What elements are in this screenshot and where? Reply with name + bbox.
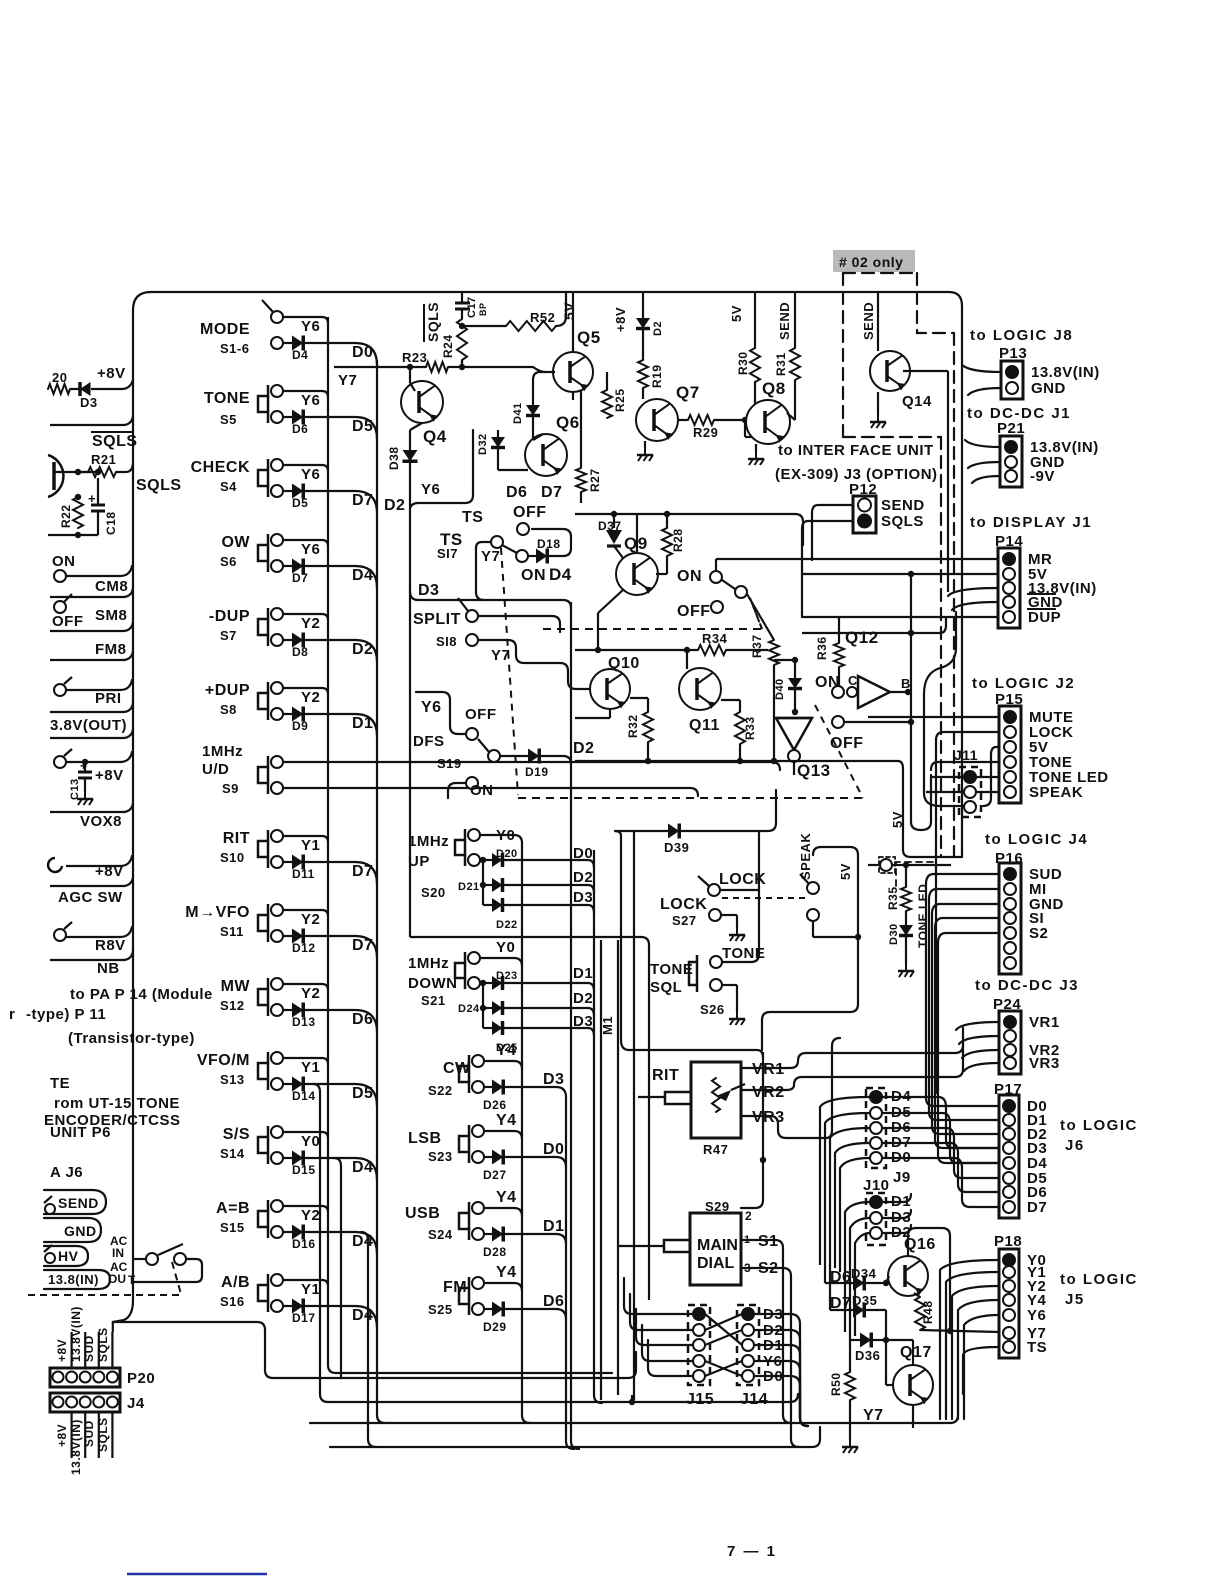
svg-text:R30: R30 (736, 351, 750, 375)
svg-text:20: 20 (52, 370, 67, 385)
svg-text:SUD: SUD (82, 1420, 96, 1447)
svg-text:to LOGIC J2: to LOGIC J2 (972, 675, 1075, 692)
svg-text:LSB: LSB (408, 1130, 442, 1147)
svg-text:+DUP: +DUP (205, 682, 250, 699)
svg-text:1MHz: 1MHz (202, 743, 243, 760)
svg-text:C13: C13 (69, 778, 81, 800)
svg-text:rom UT-15 TONE: rom UT-15 TONE (54, 1095, 180, 1112)
svg-text:J15: J15 (686, 1391, 714, 1408)
svg-text:Y6: Y6 (421, 699, 442, 716)
svg-text:S19: S19 (437, 756, 462, 771)
svg-text:SEND: SEND (777, 302, 792, 340)
svg-text:Y6: Y6 (421, 481, 440, 498)
svg-text:NB: NB (97, 960, 120, 977)
svg-text:Y4: Y4 (496, 1112, 517, 1129)
svg-text:D4: D4 (352, 1233, 373, 1250)
svg-text:AGC SW: AGC SW (58, 889, 123, 906)
svg-text:R25: R25 (613, 388, 627, 412)
svg-text:+8V: +8V (97, 365, 126, 382)
svg-text:Y4: Y4 (496, 1042, 517, 1059)
svg-text:OU: OU (108, 1272, 126, 1286)
svg-text:D6: D6 (292, 422, 308, 436)
svg-text:CHECK: CHECK (191, 459, 250, 476)
svg-text:TS: TS (462, 509, 483, 526)
svg-text:BP: BP (478, 302, 488, 316)
svg-text:C17: C17 (466, 296, 478, 318)
svg-text:D40: D40 (774, 678, 786, 700)
svg-text:R47: R47 (703, 1142, 728, 1157)
svg-text:VOX8: VOX8 (80, 813, 122, 830)
svg-text:13.8V(IN): 13.8V(IN) (69, 1419, 83, 1475)
svg-text:D5: D5 (292, 496, 308, 510)
svg-text:VR3: VR3 (752, 1109, 785, 1126)
svg-text:R37: R37 (750, 634, 764, 658)
svg-text:S12: S12 (220, 998, 245, 1013)
svg-text:S1: S1 (758, 1233, 779, 1250)
svg-text:SEND: SEND (58, 1195, 99, 1211)
svg-text:SPLIT: SPLIT (413, 611, 461, 628)
svg-text:SQLS: SQLS (96, 1417, 110, 1452)
svg-text:S7: S7 (220, 628, 237, 643)
svg-text:VR2: VR2 (752, 1084, 785, 1101)
svg-text:R8V: R8V (95, 937, 126, 954)
svg-text:D39: D39 (664, 840, 689, 855)
svg-text:Q7: Q7 (676, 383, 700, 402)
svg-text:D15: D15 (292, 1163, 316, 1177)
svg-text:VR3: VR3 (1029, 1055, 1060, 1072)
svg-text:R31: R31 (774, 352, 788, 376)
svg-text:+: + (80, 759, 88, 773)
svg-text:to LOGIC: to LOGIC (1060, 1117, 1138, 1134)
svg-text:ON: ON (52, 553, 76, 570)
svg-text:-9V: -9V (1030, 468, 1055, 485)
svg-text:R22: R22 (59, 504, 73, 528)
svg-text:D30: D30 (888, 923, 900, 945)
svg-text:R27: R27 (588, 468, 602, 492)
svg-text:D6: D6 (543, 1293, 564, 1310)
svg-text:+8V: +8V (613, 307, 628, 332)
svg-text:+8V: +8V (55, 1339, 69, 1362)
svg-text:OFF: OFF (465, 706, 497, 723)
svg-text:Y2: Y2 (301, 689, 320, 706)
svg-text:OW: OW (221, 534, 250, 551)
svg-text:D23: D23 (496, 970, 518, 982)
svg-text:-type) P 11: -type) P 11 (26, 1006, 106, 1023)
svg-text:D4: D4 (549, 565, 572, 584)
svg-text:R32: R32 (626, 714, 640, 738)
svg-text:D16: D16 (292, 1237, 316, 1251)
svg-text:D5: D5 (352, 1085, 373, 1102)
svg-text:D2: D2 (573, 740, 594, 757)
svg-text:ON: ON (470, 782, 494, 799)
svg-text:D1: D1 (352, 715, 373, 732)
svg-text:Q11: Q11 (689, 717, 720, 734)
svg-text:Q4: Q4 (423, 427, 447, 446)
svg-text:SQLS: SQLS (881, 513, 924, 530)
svg-text:1MHz: 1MHz (408, 955, 449, 972)
svg-text:R52: R52 (530, 310, 555, 325)
svg-text:D32: D32 (477, 433, 489, 455)
svg-text:OFF: OFF (52, 613, 84, 630)
svg-text:S8: S8 (220, 702, 237, 717)
svg-text:D4: D4 (352, 567, 373, 584)
svg-text:D13: D13 (292, 1015, 316, 1029)
svg-text:D4: D4 (352, 1307, 373, 1324)
svg-text:C18: C18 (104, 511, 118, 535)
svg-text:+8V: +8V (55, 1424, 69, 1447)
svg-text:13.8V(IN): 13.8V(IN) (1031, 364, 1100, 381)
svg-text:D26: D26 (483, 1098, 507, 1112)
svg-text:D3: D3 (418, 582, 439, 599)
svg-text:PRI: PRI (95, 690, 122, 707)
svg-text:R21: R21 (91, 452, 116, 467)
svg-text:J10: J10 (863, 1177, 890, 1194)
svg-text:SEND: SEND (881, 497, 925, 514)
svg-text:TONE: TONE (650, 961, 693, 978)
svg-text:Y7: Y7 (481, 548, 500, 565)
svg-text:C: C (848, 673, 858, 688)
svg-text:D2: D2 (573, 990, 593, 1007)
svg-text:D7: D7 (541, 484, 562, 501)
svg-text:S5: S5 (220, 412, 237, 427)
svg-text:Y0: Y0 (301, 1133, 320, 1150)
svg-text:Q9: Q9 (624, 534, 648, 553)
svg-text:MODE: MODE (200, 321, 250, 338)
svg-text:D12: D12 (292, 941, 316, 955)
svg-text:to DC-DC J3: to DC-DC J3 (975, 977, 1079, 994)
svg-text:R35: R35 (886, 886, 900, 910)
svg-text:Y2: Y2 (301, 985, 320, 1002)
svg-text:SEND: SEND (861, 302, 876, 340)
svg-text:J5: J5 (1065, 1291, 1085, 1308)
svg-text:5V: 5V (729, 305, 744, 322)
svg-text:+: + (88, 491, 96, 506)
svg-text:13.8(IN): 13.8(IN) (48, 1272, 99, 1287)
svg-text:Y7: Y7 (338, 372, 357, 389)
svg-text:Q6: Q6 (556, 413, 580, 432)
svg-text:D3: D3 (543, 1071, 564, 1088)
svg-text:TONE: TONE (204, 390, 250, 407)
svg-text:M→VFO: M→VFO (185, 904, 250, 921)
svg-text:R29: R29 (693, 425, 718, 440)
svg-text:SM8: SM8 (95, 607, 127, 624)
svg-text:MW: MW (221, 978, 251, 995)
svg-text:J11: J11 (954, 747, 978, 763)
svg-text:VR1: VR1 (1029, 1014, 1060, 1031)
svg-text:r: r (9, 1006, 15, 1023)
svg-text:D6: D6 (506, 484, 527, 501)
svg-text:Y2: Y2 (301, 1207, 320, 1224)
svg-text:Q5: Q5 (577, 328, 601, 347)
svg-text:SQLS: SQLS (96, 1327, 110, 1362)
svg-text:USB: USB (405, 1205, 440, 1222)
svg-text:B: B (901, 676, 911, 691)
svg-text:RIT: RIT (652, 1067, 679, 1084)
svg-text:SPEAK: SPEAK (798, 833, 813, 880)
svg-text:to LOGIC J4: to LOGIC J4 (985, 831, 1088, 848)
svg-text:GND: GND (64, 1223, 97, 1239)
svg-text:A=B: A=B (216, 1200, 250, 1217)
svg-text:DIAL: DIAL (697, 1255, 735, 1272)
svg-text:D3: D3 (573, 889, 593, 906)
svg-text:D6: D6 (352, 1011, 373, 1028)
svg-text:TS: TS (1027, 1339, 1047, 1356)
svg-text:OFF: OFF (513, 504, 547, 521)
svg-text:J4: J4 (127, 1395, 145, 1412)
svg-text:Y7: Y7 (491, 647, 510, 664)
svg-text:Q10: Q10 (608, 655, 640, 672)
svg-text:UP: UP (408, 853, 430, 870)
svg-text:HV: HV (58, 1248, 79, 1264)
svg-text:R36: R36 (815, 636, 829, 660)
svg-text:+8V: +8V (95, 767, 124, 784)
svg-text:VR1: VR1 (752, 1061, 785, 1078)
svg-text:M1: M1 (600, 1016, 615, 1035)
svg-text:A J6: A J6 (50, 1164, 83, 1181)
svg-text:VFO/M: VFO/M (197, 1052, 250, 1069)
svg-text:5V: 5V (838, 863, 853, 880)
svg-text:D0: D0 (573, 845, 593, 862)
svg-text:# 02 only: # 02 only (839, 254, 903, 270)
svg-text:IN: IN (112, 1246, 124, 1260)
svg-text:SQL: SQL (650, 979, 682, 996)
svg-text:1MHz: 1MHz (408, 833, 449, 850)
svg-text:D41: D41 (512, 402, 524, 424)
svg-text:D1: D1 (573, 965, 593, 982)
svg-text:Y4: Y4 (496, 1264, 517, 1281)
svg-text:Y1: Y1 (301, 1281, 320, 1298)
svg-text:ON: ON (677, 568, 702, 585)
svg-text:to LOGIC: to LOGIC (1060, 1271, 1138, 1288)
svg-text:J14: J14 (740, 1391, 768, 1408)
svg-text:D7: D7 (292, 571, 308, 585)
svg-text:R28: R28 (671, 528, 685, 552)
svg-text:2: 2 (745, 1209, 752, 1223)
svg-text:to PA P 14 (Module: to PA P 14 (Module (70, 986, 213, 1003)
svg-text:S6: S6 (220, 554, 237, 569)
svg-text:DUP: DUP (1028, 609, 1061, 626)
svg-text:J6: J6 (1065, 1137, 1085, 1154)
svg-text:D3: D3 (80, 395, 98, 410)
svg-text:D2: D2 (652, 321, 664, 336)
svg-text:R23: R23 (402, 350, 427, 365)
svg-text:SPEAK: SPEAK (1029, 784, 1083, 801)
svg-text:R48: R48 (921, 1300, 935, 1324)
svg-text:GND: GND (1031, 380, 1066, 397)
svg-text:S1-6: S1-6 (220, 341, 249, 356)
svg-text:D1: D1 (543, 1218, 564, 1235)
svg-text:S9: S9 (222, 781, 239, 796)
svg-text:UNIT P6: UNIT P6 (50, 1124, 111, 1141)
svg-text:D9: D9 (292, 719, 308, 733)
svg-text:D8: D8 (292, 645, 308, 659)
svg-text:Y4: Y4 (496, 1189, 517, 1206)
svg-text:DFS: DFS (413, 733, 445, 750)
svg-text:Y6: Y6 (301, 392, 320, 409)
svg-text:SI8: SI8 (436, 634, 457, 649)
svg-text:S21: S21 (421, 993, 446, 1008)
svg-text:D29: D29 (483, 1320, 507, 1334)
svg-text:P21: P21 (997, 420, 1025, 437)
svg-text:Y6: Y6 (301, 466, 320, 483)
svg-text:D27: D27 (483, 1168, 507, 1182)
svg-text:S16: S16 (220, 1294, 245, 1309)
svg-text:S26: S26 (700, 1002, 725, 1017)
svg-text:S2: S2 (1029, 925, 1048, 942)
svg-text:FM8: FM8 (95, 641, 127, 658)
svg-text:A/B: A/B (221, 1274, 250, 1291)
svg-text:D2: D2 (573, 869, 593, 886)
svg-text:SI7: SI7 (437, 546, 458, 561)
svg-text:OFF: OFF (677, 603, 711, 620)
svg-text:Y6: Y6 (301, 318, 320, 335)
svg-text:SUD: SUD (82, 1335, 96, 1362)
svg-text:D2: D2 (352, 641, 373, 658)
svg-text:D17: D17 (292, 1311, 316, 1325)
svg-text:D7: D7 (352, 492, 373, 509)
svg-text:D14: D14 (292, 1089, 316, 1103)
svg-text:D11: D11 (292, 867, 315, 881)
svg-text:D7: D7 (352, 863, 373, 880)
svg-text:S4: S4 (220, 479, 237, 494)
svg-text:CM8: CM8 (95, 578, 128, 595)
svg-text:R34: R34 (702, 631, 728, 646)
svg-text:D2: D2 (384, 497, 405, 514)
svg-text:13.8V(IN): 13.8V(IN) (69, 1306, 83, 1362)
svg-text:RIT: RIT (223, 830, 250, 847)
svg-text:to INTER FACE UNIT: to INTER FACE UNIT (778, 442, 934, 459)
svg-text:Y0: Y0 (496, 939, 515, 956)
svg-text:to DISPLAY J1: to DISPLAY J1 (970, 514, 1092, 531)
svg-text:DOWN: DOWN (408, 975, 458, 992)
svg-text:R19: R19 (650, 364, 664, 388)
svg-text:S22: S22 (428, 1083, 453, 1098)
svg-text:7 — 1: 7 — 1 (727, 1543, 777, 1560)
svg-text:SQLS: SQLS (425, 302, 441, 342)
svg-text:Q17: Q17 (900, 1344, 932, 1361)
svg-text:D36: D36 (855, 1348, 880, 1363)
svg-text:P18: P18 (994, 1233, 1022, 1250)
svg-text:R33: R33 (743, 716, 757, 740)
svg-text:D38: D38 (387, 446, 401, 470)
svg-text:D7: D7 (352, 937, 373, 954)
svg-text:Y2: Y2 (301, 615, 320, 632)
svg-text:Y1: Y1 (301, 1059, 320, 1076)
svg-text:FM: FM (443, 1279, 467, 1296)
svg-text:Y2: Y2 (301, 911, 320, 928)
svg-text:Q14: Q14 (902, 393, 932, 410)
svg-text:R50: R50 (829, 1372, 843, 1396)
svg-text:(Transistor-type): (Transistor-type) (68, 1030, 195, 1047)
svg-text:Q13: Q13 (797, 761, 831, 780)
svg-text:S13: S13 (220, 1072, 245, 1087)
svg-text:to LOGIC J8: to LOGIC J8 (970, 327, 1073, 344)
svg-text:D24: D24 (458, 1003, 480, 1015)
svg-text:SQLS: SQLS (136, 477, 182, 494)
svg-text:J9: J9 (893, 1169, 911, 1186)
svg-text:S10: S10 (220, 850, 245, 865)
svg-text:P13: P13 (999, 345, 1027, 362)
svg-text:TE: TE (50, 1075, 70, 1092)
svg-text:LOCK: LOCK (660, 896, 707, 913)
svg-text:SQLS: SQLS (92, 433, 138, 450)
svg-text:S11: S11 (220, 924, 244, 939)
svg-text:U/D: U/D (202, 761, 229, 778)
svg-text:Y6: Y6 (1027, 1307, 1046, 1324)
svg-text:S24: S24 (428, 1227, 453, 1242)
svg-text:ON: ON (521, 567, 546, 584)
svg-text:T: T (128, 1273, 136, 1287)
svg-text:P20: P20 (127, 1370, 155, 1387)
svg-text:Q12: Q12 (845, 628, 879, 647)
svg-text:3.8V(OUT): 3.8V(OUT) (50, 717, 127, 734)
svg-text:5V: 5V (561, 302, 577, 320)
svg-text:D0: D0 (352, 344, 373, 361)
svg-text:CW: CW (443, 1060, 471, 1077)
svg-text:D4: D4 (352, 1159, 373, 1176)
svg-text:S20: S20 (421, 885, 446, 900)
svg-text:Y1: Y1 (301, 837, 320, 854)
svg-text:D28: D28 (483, 1245, 507, 1259)
svg-text:S23: S23 (428, 1149, 453, 1164)
svg-text:S27: S27 (672, 913, 697, 928)
svg-text:R24: R24 (441, 334, 455, 358)
svg-text:D7: D7 (1027, 1199, 1047, 1216)
svg-text:S15: S15 (220, 1220, 245, 1235)
svg-text:+8V: +8V (95, 863, 124, 880)
svg-text:D4: D4 (292, 348, 308, 362)
svg-text:D0: D0 (543, 1141, 564, 1158)
svg-text:MAIN: MAIN (697, 1237, 738, 1254)
svg-text:Q8: Q8 (762, 379, 786, 398)
svg-text:S/S: S/S (223, 1126, 250, 1143)
svg-text:Y7: Y7 (863, 1407, 884, 1424)
svg-text:D22: D22 (496, 919, 518, 931)
svg-text:5V: 5V (890, 811, 905, 828)
svg-text:D5: D5 (352, 418, 373, 435)
svg-text:S25: S25 (428, 1302, 453, 1317)
svg-text:D21: D21 (458, 881, 480, 893)
svg-text:D18: D18 (537, 537, 561, 551)
svg-text:S14: S14 (220, 1146, 245, 1161)
svg-text:Y6: Y6 (301, 541, 320, 558)
svg-text:D19: D19 (525, 765, 549, 779)
svg-text:-DUP: -DUP (209, 608, 250, 625)
